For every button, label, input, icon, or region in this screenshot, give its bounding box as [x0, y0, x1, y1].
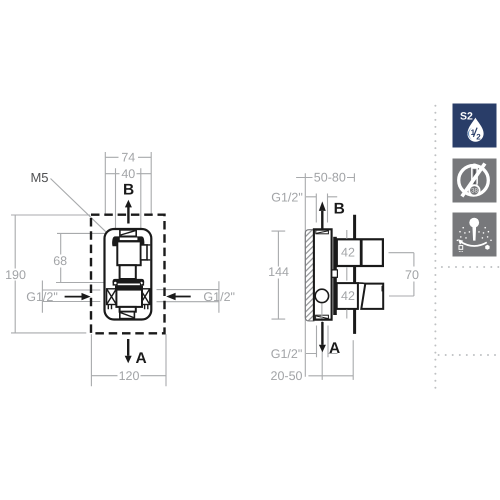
svg-text:G1/2": G1/2": [271, 347, 303, 361]
svg-text:20-50: 20-50: [271, 369, 303, 383]
dimension 50-80 lines: [296, 173, 354, 181]
svg-text:G1/2": G1/2": [271, 191, 303, 205]
knob top divider: [360, 239, 363, 266]
side tab connector lines: [147, 245, 150, 260]
dimension 120 lines: [91, 334, 166, 386]
svg-text:74: 74: [121, 151, 135, 165]
inlet pipe left: [42, 281, 100, 313]
knob bottom hub: [337, 283, 358, 309]
G1/2 top dimension lines: [306, 194, 337, 223]
icon diverter background: [453, 213, 497, 257]
cartridge side tab right: [141, 245, 147, 260]
svg-text:50-80: 50-80: [314, 171, 346, 185]
side top cap: [316, 230, 329, 234]
svg-text:S2: S2: [460, 110, 473, 122]
top cap diagonal: [121, 231, 136, 235]
thermometer bulb: [469, 185, 479, 195]
icon S2 half-inch background: [453, 104, 497, 148]
valve body side: [314, 229, 332, 319]
lower white band: [117, 283, 140, 286]
svg-text:G1/2": G1/2": [26, 290, 58, 304]
arrow B side: [321, 211, 323, 229]
valve boss between knobs: [332, 270, 338, 277]
icon no-thermostat background: [453, 159, 497, 203]
svg-text:144: 144: [268, 265, 289, 279]
diverter glyph left: [459, 246, 463, 252]
G1/2 bottom dimension lines: [306, 326, 338, 358]
svg-text:M5: M5: [30, 170, 48, 185]
wall finish line: [353, 215, 356, 334]
svg-text:B: B: [334, 201, 345, 218]
pipe axis line inside valve: [321, 304, 323, 319]
pipe axis line bottom: [321, 321, 323, 380]
diverter spray dots: [457, 227, 492, 241]
valve body front outline: [105, 229, 152, 320]
wall hatch strip: [305, 230, 314, 321]
rubber seal band: [115, 286, 143, 290]
cartridge stem: [120, 265, 136, 279]
dotted separator vertical: [434, 105, 436, 389]
svg-text:70: 70: [405, 268, 419, 282]
lower stem: [120, 307, 136, 312]
dimension 144 lines: [272, 231, 286, 319]
mounting plate: [333, 237, 337, 315]
dimension 74 lines: [105, 152, 151, 215]
arrow A front: [127, 339, 129, 356]
lower clamp nut ends: [113, 281, 118, 286]
svg-text:190: 190: [5, 268, 26, 282]
bottom cap diagonal: [121, 313, 134, 318]
bottom cap: [120, 312, 135, 319]
dimension 190 lines: [11, 215, 90, 333]
dimension 40 lines: [105, 168, 151, 236]
diverter knob ball: [469, 218, 479, 228]
dashed installation box: [91, 215, 165, 334]
dotted separator horizontal: [438, 266, 500, 356]
arrow B front: [127, 207, 129, 224]
svg-text:B: B: [123, 182, 134, 199]
svg-text:42: 42: [341, 246, 355, 260]
side bottom cap: [316, 315, 329, 319]
svg-text:A: A: [136, 350, 147, 367]
blade top connector: [358, 282, 365, 285]
flow arrow left: [65, 296, 82, 298]
left wing: [107, 289, 117, 310]
dimension 20-50 lines: [308, 340, 353, 380]
svg-text:68: 68: [53, 254, 67, 268]
right wing: [140, 289, 150, 310]
diverter arc: [460, 242, 487, 246]
lower cartridge body: [116, 290, 142, 307]
svg-text:42: 42: [341, 289, 355, 303]
dimension 68 lines: [56, 233, 112, 282]
knob bottom blade: [361, 284, 383, 309]
svg-text:38: 38: [471, 188, 479, 195]
wall back extension line: [304, 173, 306, 377]
icon no-thermostat circle: [459, 166, 489, 196]
dimension 70 lines: [389, 253, 414, 296]
top cartridge body: [117, 241, 140, 265]
thermometer stem: [471, 164, 478, 187]
svg-text:2: 2: [476, 132, 481, 141]
icon S2 water drop: [467, 118, 483, 142]
diverter arc arrowhead: [458, 239, 463, 245]
diverter glyph right: [485, 245, 489, 250]
clamp nut white slot: [120, 238, 138, 241]
svg-text:120: 120: [119, 369, 140, 383]
screw boss circle: [315, 289, 328, 302]
knob top: [337, 239, 383, 266]
M5 leader line: [51, 179, 114, 239]
lower clamp nut: [113, 279, 145, 283]
svg-text:40: 40: [121, 167, 135, 181]
diverter knob stem: [472, 226, 476, 240]
top cartridge clamp nut: [112, 236, 144, 246]
arrow A side: [321, 322, 323, 345]
icon S2 crescent: [468, 128, 473, 140]
top cap: [120, 230, 136, 236]
blade tick: [382, 286, 384, 292]
no-thermostat slash: [462, 164, 485, 197]
construction ticks mid: [346, 230, 348, 319]
svg-text:G1/2": G1/2": [203, 290, 235, 304]
flow arrow right: [175, 296, 191, 298]
svg-text:A: A: [329, 340, 340, 357]
inlet pipe right: [157, 281, 220, 313]
